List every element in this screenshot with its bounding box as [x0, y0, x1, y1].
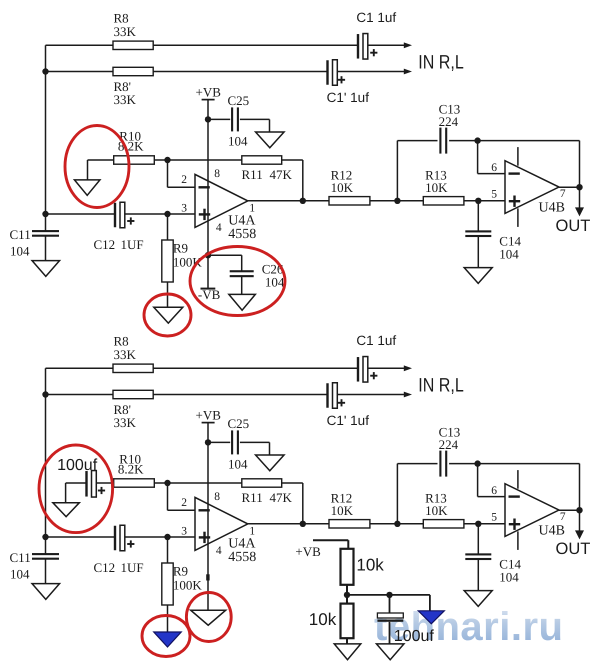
svg-text:4: 4 — [216, 222, 222, 234]
svg-text:OUT: OUT — [556, 540, 590, 558]
svg-text:-VB: -VB — [198, 287, 221, 302]
svg-text:1: 1 — [249, 526, 255, 538]
svg-text:33K: 33K — [114, 347, 137, 362]
svg-text:3: 3 — [181, 202, 187, 214]
svg-text:33K: 33K — [114, 92, 137, 107]
svg-text:104: 104 — [265, 274, 285, 289]
svg-text:100K: 100K — [173, 578, 203, 593]
svg-text:224: 224 — [439, 114, 459, 129]
svg-text:U4B: U4B — [539, 523, 565, 538]
svg-text:10K: 10K — [331, 180, 354, 195]
svg-text:C1' 1uf: C1' 1uf — [327, 90, 370, 105]
svg-text:6: 6 — [491, 162, 497, 174]
svg-text:IN R,L: IN R,L — [418, 52, 464, 74]
svg-text:C1 1uf: C1 1uf — [356, 10, 396, 25]
svg-text:+VB: +VB — [196, 85, 222, 100]
svg-text:1: 1 — [249, 203, 255, 215]
svg-text:C12: C12 — [94, 560, 116, 575]
svg-text:8.2K: 8.2K — [118, 462, 144, 477]
svg-text:2: 2 — [181, 497, 187, 509]
svg-text:10K: 10K — [425, 180, 448, 195]
svg-text:R11: R11 — [242, 490, 263, 505]
svg-text:47K: 47K — [270, 167, 293, 182]
svg-text:10k: 10k — [309, 610, 337, 629]
svg-text:100uf: 100uf — [57, 457, 98, 474]
svg-text:U4B: U4B — [539, 200, 565, 215]
svg-text:C25: C25 — [228, 93, 250, 108]
svg-text:104: 104 — [228, 456, 248, 471]
svg-text:4: 4 — [216, 545, 222, 557]
svg-text:C1' 1uf: C1' 1uf — [327, 413, 370, 428]
svg-text:104: 104 — [10, 567, 30, 582]
svg-text:R9: R9 — [173, 564, 188, 579]
svg-text:224: 224 — [439, 437, 459, 452]
svg-text:R9: R9 — [173, 241, 188, 256]
svg-text:4558: 4558 — [228, 227, 256, 242]
svg-text:104: 104 — [228, 133, 248, 148]
svg-text:R11: R11 — [242, 167, 263, 182]
svg-text:1UF: 1UF — [121, 237, 144, 252]
svg-text:OUT: OUT — [556, 217, 590, 235]
svg-text:5: 5 — [491, 512, 497, 524]
svg-text:10K: 10K — [425, 503, 448, 518]
svg-text:1UF: 1UF — [121, 560, 144, 575]
svg-text:2: 2 — [181, 174, 187, 186]
svg-text:4558: 4558 — [228, 550, 256, 565]
svg-text:104: 104 — [499, 570, 519, 585]
svg-text:C12: C12 — [94, 237, 116, 252]
svg-text:7: 7 — [560, 511, 566, 523]
svg-text:C25: C25 — [228, 416, 250, 431]
svg-text:10k: 10k — [356, 555, 384, 574]
svg-text:5: 5 — [491, 189, 497, 201]
svg-text:10K: 10K — [331, 503, 354, 518]
svg-text:C11: C11 — [10, 550, 31, 565]
svg-text:100uf: 100uf — [394, 628, 435, 645]
svg-text:47K: 47K — [270, 490, 293, 505]
svg-text:IN R,L: IN R,L — [418, 375, 464, 397]
svg-text:3: 3 — [181, 525, 187, 537]
svg-text:33K: 33K — [114, 24, 137, 39]
svg-text:7: 7 — [560, 188, 566, 200]
svg-text:8: 8 — [214, 491, 220, 503]
svg-text:6: 6 — [491, 485, 497, 497]
svg-text:C1 1uf: C1 1uf — [356, 333, 396, 348]
svg-text:33K: 33K — [114, 415, 137, 430]
svg-text:+VB: +VB — [295, 544, 321, 559]
svg-text:104: 104 — [10, 244, 30, 259]
svg-text:C11: C11 — [10, 227, 31, 242]
svg-text:+VB: +VB — [196, 408, 222, 423]
svg-text:8: 8 — [214, 168, 220, 180]
svg-text:104: 104 — [499, 247, 519, 262]
